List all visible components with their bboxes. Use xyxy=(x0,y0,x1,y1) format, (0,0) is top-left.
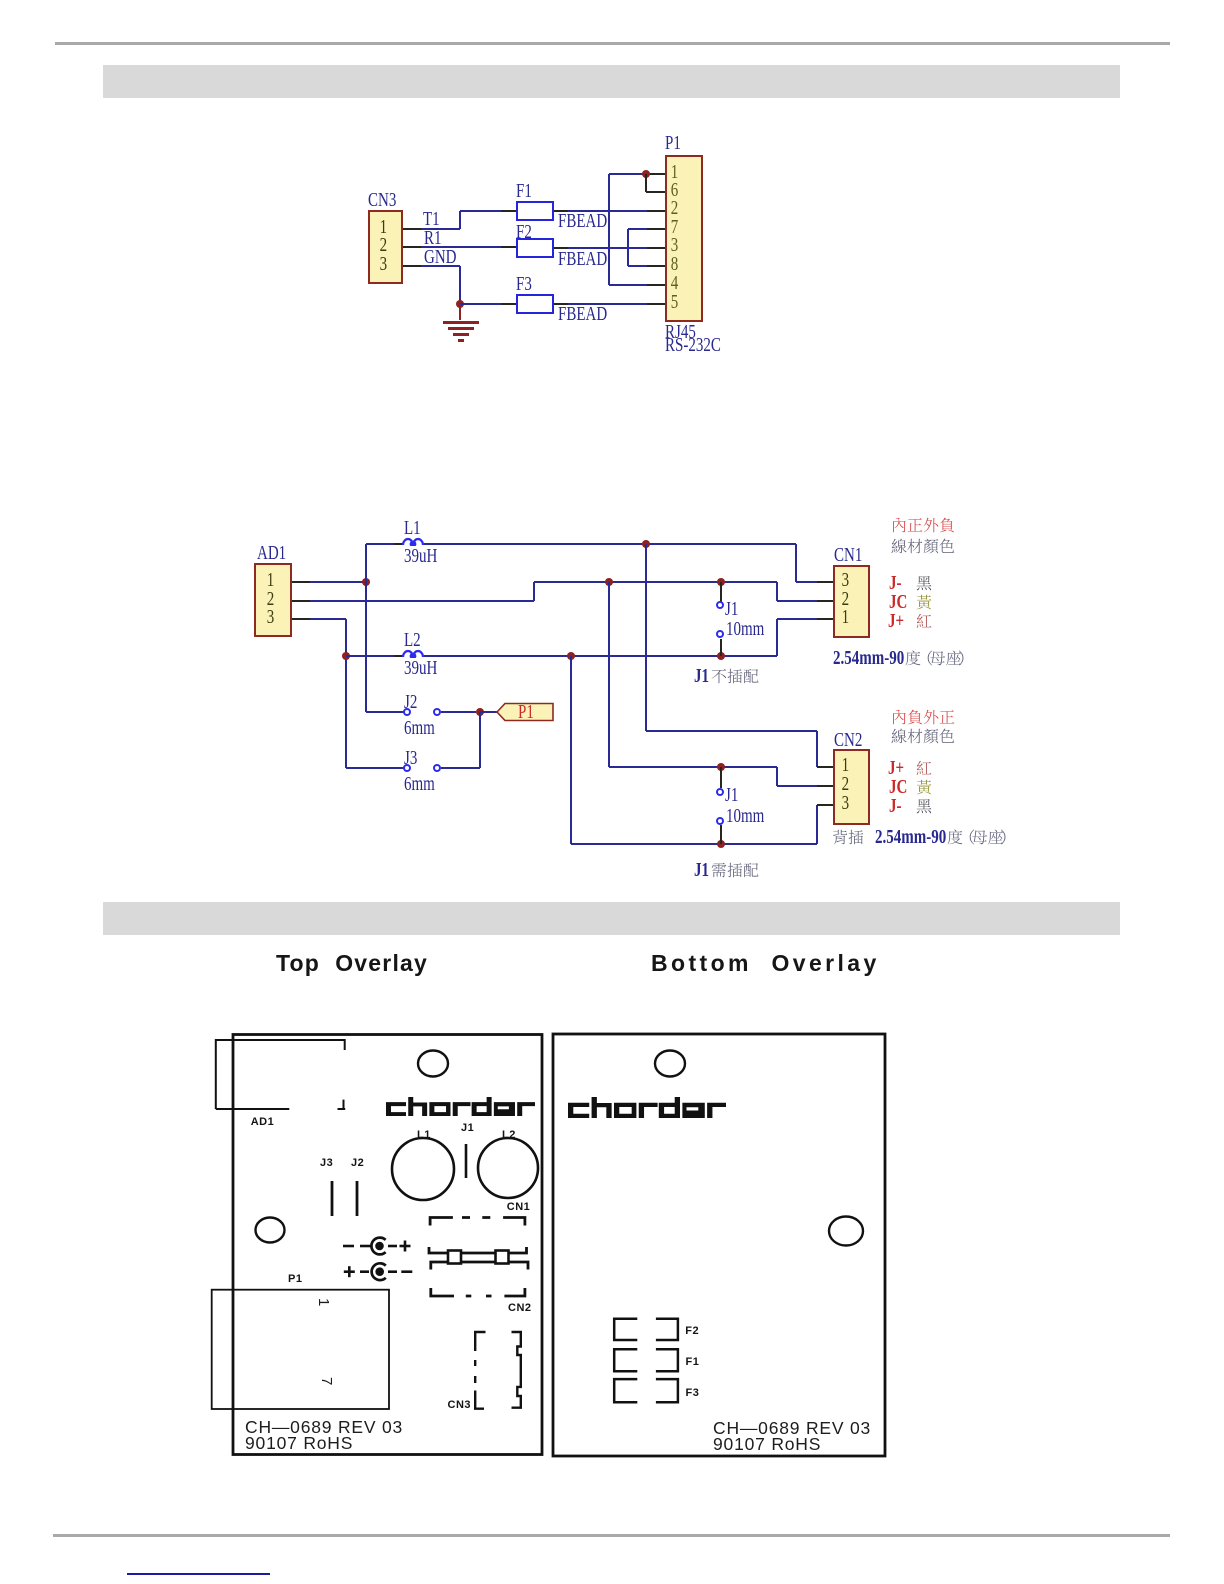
wire GND to F3 xyxy=(460,303,501,305)
junction L2 input xyxy=(342,652,350,660)
battery polarity row 1: - pad + xyxy=(343,1238,411,1255)
footer link underline xyxy=(127,1573,270,1575)
P1 footprint rectangle xyxy=(212,1290,389,1409)
wire to CN2.3 xyxy=(816,805,818,844)
label J+ (CN2) xyxy=(888,758,904,778)
ferrite bead F1 xyxy=(516,201,554,221)
chorder logo (bottom overlay) xyxy=(568,1097,726,1118)
wire to P1.1 xyxy=(609,173,649,175)
note: inner positive outer negative xyxy=(891,517,955,533)
wire L1 net to CN1.3 xyxy=(795,544,797,582)
connector CN2 xyxy=(833,749,870,825)
red (CN1 J+) xyxy=(916,613,932,629)
refdes L1 (top overlay) xyxy=(417,1130,431,1141)
black (CN1 J-) xyxy=(916,575,932,591)
yellow (CN1 JC) xyxy=(916,594,932,610)
board outline (top) xyxy=(233,1035,542,1455)
F1 footprint brackets xyxy=(614,1349,678,1371)
connector CN1 xyxy=(833,565,870,638)
mounting hole (top) xyxy=(418,1051,448,1077)
junction AD1.2 net / vertical bus xyxy=(605,578,613,586)
mounting hole (left) xyxy=(256,1218,285,1243)
refdes F1 (bottom overlay) xyxy=(686,1357,700,1368)
note: inner negative outer positive xyxy=(891,709,955,725)
jumper J1 (lower) xyxy=(720,767,722,788)
net 1-6-4 bus: vertical xyxy=(608,174,610,286)
note J1 must fit cjk xyxy=(711,862,759,878)
top horizontal rule xyxy=(55,42,1170,45)
junction J1b top terminal xyxy=(717,763,725,771)
wire L1 out xyxy=(424,543,797,545)
junction J1a top terminal xyxy=(717,578,725,586)
net label R1 xyxy=(424,228,442,248)
J3 silkscreen line xyxy=(331,1181,334,1216)
label J- (CN1) xyxy=(889,573,902,593)
red (CN2 J+) xyxy=(916,760,932,776)
L2 net bus down to CN2.3 xyxy=(570,656,572,844)
CN2 pitch note latin xyxy=(875,827,946,847)
board id text (bottom overlay) xyxy=(713,1420,871,1438)
CN3 pin stubs xyxy=(403,228,421,230)
power port flag P1 xyxy=(496,702,554,722)
F3 footprint brackets xyxy=(614,1379,678,1402)
wire T1: CN3.1 to F1 xyxy=(421,228,460,230)
wire F1 out to P1.2 xyxy=(554,210,568,212)
label J- (CN2) xyxy=(889,796,902,816)
board outline (bottom) xyxy=(553,1034,885,1456)
refdes J3 (top overlay) xyxy=(320,1158,333,1169)
title Bottom Overlay xyxy=(651,950,880,977)
junction J1a bottom terminal xyxy=(717,652,725,660)
connector AD1 xyxy=(254,563,292,637)
net label T1 xyxy=(423,209,440,229)
CN2 dashed silkscreen xyxy=(431,1288,525,1296)
board id text (top overlay) xyxy=(245,1419,403,1437)
inductor L2 xyxy=(402,648,424,658)
junction J1b bottom terminal xyxy=(717,840,725,848)
CN3 footprint silkscreen xyxy=(475,1332,521,1409)
AD1 footprint outline xyxy=(216,1040,345,1109)
connector CN3 xyxy=(368,210,403,284)
L1 silkscreen circle xyxy=(392,1138,454,1200)
label JC (CN2) xyxy=(889,777,907,797)
label JC (CN1) xyxy=(889,592,907,612)
yellow (CN2 JC) xyxy=(916,779,932,795)
J1 silkscreen line xyxy=(465,1144,468,1178)
P1 pin 7 marker (rotated) xyxy=(320,1377,335,1392)
net 7-8 bus: vertical xyxy=(627,229,629,266)
note: wire colors xyxy=(891,538,955,554)
wire R1: CN3.2 to F2 xyxy=(421,246,501,248)
refdes AD1 (top overlay) xyxy=(251,1117,275,1128)
ferrite bead F2 xyxy=(516,238,554,258)
F2 footprint brackets xyxy=(614,1319,678,1340)
wire F2 out to P1.3 xyxy=(554,247,568,249)
wire AD1.1 to node xyxy=(310,581,366,583)
jumper J2 xyxy=(366,711,404,713)
3-pin header silkscreen xyxy=(429,1247,528,1270)
wire node up to L1 and down to J2 xyxy=(365,544,367,712)
CN1 pitch note latin xyxy=(833,648,904,668)
wire AD1.3 down xyxy=(310,618,346,620)
wire L2 net to CN1.1 xyxy=(776,619,778,657)
note: wire colors 2 xyxy=(891,728,955,744)
black (CN2 J-) xyxy=(916,798,932,814)
note J1 not fitted latin xyxy=(694,666,709,686)
bottom overlay board svg xyxy=(540,1020,900,1470)
inductor L1 xyxy=(402,536,424,546)
junction on L1 net xyxy=(642,540,650,548)
CN2 pitch note cjk xyxy=(947,829,1012,845)
junction J2/J3 to P1 flag xyxy=(476,708,484,716)
ground symbol xyxy=(459,304,461,321)
gray banner bar 1 xyxy=(103,65,1120,98)
refdes CN1 (top overlay) xyxy=(507,1202,531,1213)
wire F3 out to P1.5 xyxy=(554,303,568,305)
wire GND: CN3.3 down to ground junction xyxy=(421,265,460,267)
junction ground node xyxy=(456,300,464,308)
wire to CN1.2 xyxy=(776,582,778,601)
wire to P1.8 xyxy=(628,265,648,267)
mounting hole (top, bottom board) xyxy=(655,1051,685,1077)
label J+ (CN1) xyxy=(888,611,904,631)
wire L2 out xyxy=(424,655,778,657)
wire into L2 xyxy=(346,655,394,657)
title Top Overlay xyxy=(276,950,428,977)
ferrite bead F3 xyxy=(516,294,554,314)
vertical bus to CN2.2 xyxy=(608,582,610,768)
jumper J3 xyxy=(346,767,404,769)
note J1 not fitted cjk xyxy=(711,668,759,684)
note rear-insert xyxy=(832,829,864,845)
top overlay board svg xyxy=(200,1020,560,1470)
CN1 pitch note cjk xyxy=(905,650,970,666)
bottom horizontal rule xyxy=(53,1534,1170,1537)
refdes CN3 (top overlay) xyxy=(448,1400,472,1411)
wire to P1.4 xyxy=(609,284,648,286)
wire AD1.2 net xyxy=(310,600,534,602)
mounting hole (right, bottom board) xyxy=(829,1217,863,1246)
battery polarity row 2: + pad - xyxy=(344,1263,413,1280)
refdes J1 (top overlay) xyxy=(461,1123,474,1134)
gray banner bar 2 xyxy=(103,902,1120,935)
wire to P1.7 xyxy=(628,228,648,230)
chorder logo (top overlay) xyxy=(386,1097,535,1116)
refdes CN2 (top overlay) xyxy=(508,1303,532,1314)
note J1 must fit latin xyxy=(694,860,709,880)
jumper J1 (upper) xyxy=(720,582,722,602)
J2 silkscreen line xyxy=(356,1181,359,1216)
wire into L1 xyxy=(366,543,395,545)
net label GND xyxy=(424,247,457,267)
refdes J2 (top overlay) xyxy=(351,1158,364,1169)
junction L2 net / down bus xyxy=(567,652,575,660)
wire to CN2.2 xyxy=(776,767,778,786)
wire L1 net down toward CN2.1 xyxy=(645,544,647,731)
AD1 pin stubs xyxy=(292,581,310,583)
refdes L2 (top overlay) xyxy=(502,1130,516,1141)
refdes F3 (bottom overlay) xyxy=(686,1388,700,1399)
connector P1 (RJ45) xyxy=(665,155,703,322)
wire junction down to P1.6 xyxy=(645,174,647,192)
CN1 dashed silkscreen xyxy=(430,1218,525,1226)
refdes F2 (bottom overlay) xyxy=(685,1326,699,1337)
node AD1.1 junction xyxy=(362,578,370,586)
junction node pin1/6 xyxy=(642,170,650,178)
refdes P1 (top overlay) xyxy=(288,1274,302,1285)
P1 pin 1 marker (rotated) xyxy=(317,1298,332,1313)
L2 silkscreen circle xyxy=(478,1138,538,1198)
